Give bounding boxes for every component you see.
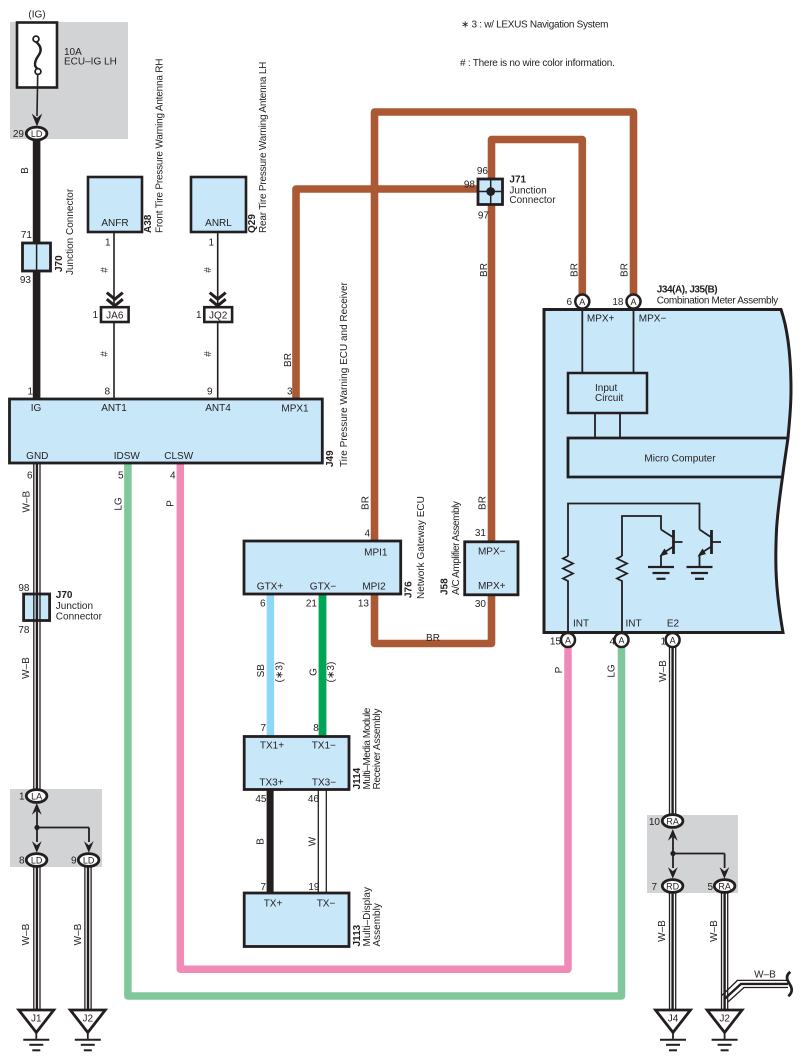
wire label G rotated [309, 668, 320, 676]
svg-text:1: 1 [660, 637, 666, 648]
svg-text:P: P [554, 666, 565, 673]
svg-text:W–B: W–B [709, 920, 720, 942]
wire W-B from Combination Meter E2 pin 1 to RA connector [670, 647, 676, 816]
svg-text:Combination Meter Assembly: Combination Meter Assembly [657, 296, 778, 307]
connector JQ2 pin 1 [204, 307, 232, 322]
svg-text:J71: J71 [509, 174, 526, 185]
svg-text:W–B: W–B [21, 923, 32, 945]
svg-text:TX1+: TX1+ [260, 741, 284, 752]
pin labels 7 19 above J113 [260, 882, 319, 893]
shield chevrons above JA6 [107, 293, 123, 306]
pin label 98 J70 lower [18, 583, 30, 594]
svg-text:GTX+: GTX+ [257, 582, 284, 593]
svg-text:8: 8 [19, 856, 25, 867]
svg-text:INT: INT [573, 619, 589, 630]
svg-text:LG: LG [114, 497, 125, 511]
pin label 97 J71 [478, 211, 490, 222]
wire MPX+ inside meter [581, 311, 583, 373]
Combination Meter Assembly box J34(A) J35(B) with wavy right edge [544, 310, 791, 633]
shield chevrons above JQ2 [210, 293, 226, 306]
svg-text:Junction Connector: Junction Connector [65, 188, 76, 275]
wire SB from J76 GTX+ pin 6 to J114 TX1+ pin 7 [267, 594, 275, 737]
pin label 98 J71 [464, 180, 476, 191]
note wire color [460, 58, 615, 69]
labels MPX+ MPX- inside meter [587, 314, 667, 325]
svg-text:TX+: TX+ [264, 899, 283, 910]
label J34(A) J35(B) Combination Meter Assembly [657, 285, 778, 307]
wire label # ANT4 upper [203, 267, 214, 273]
pin circle A 15 meter bottom [561, 633, 575, 647]
connector JA6 pin 1 [101, 307, 129, 322]
wire label (*3) SB rotated [275, 662, 286, 683]
arrow up to RA [668, 829, 678, 854]
box J113 Multi-Display Assembly [244, 893, 349, 947]
svg-text:MPI1: MPI1 [364, 548, 388, 559]
wire from fuse to LD connector [32, 75, 43, 127]
svg-text:MPX+: MPX+ [587, 314, 615, 325]
svg-text:96: 96 [477, 166, 489, 177]
pin circle A 1 meter bottom [666, 633, 680, 647]
note LEXUS navigation [461, 20, 608, 31]
wire label LG pin4 rotated [607, 664, 618, 678]
svg-text:98: 98 [464, 180, 476, 191]
svg-text:J2: J2 [83, 1014, 94, 1025]
svg-text:98: 98 [18, 583, 30, 594]
wire labels W-B bottom left rotated [21, 923, 84, 945]
svg-text:18: 18 [612, 297, 624, 308]
ground for Q2 [687, 567, 713, 579]
ground triangle J2 right [707, 1010, 742, 1050]
svg-text:# : There is no wire color inf: # : There is no wire color information. [460, 58, 615, 69]
svg-text:8: 8 [313, 723, 319, 734]
connector RA pin 5 [714, 880, 735, 893]
svg-text:(∗3): (∗3) [275, 662, 286, 683]
svg-text:ANT4: ANT4 [205, 403, 231, 414]
svg-text:W–B: W–B [22, 491, 33, 513]
junction dot and branch right [670, 851, 724, 868]
wire B thick from LD connector to J49 IG pin 1 [33, 139, 41, 399]
svg-text:INT: INT [625, 619, 641, 630]
pin circle A 18 on meter top [627, 295, 641, 309]
svg-text:3: 3 [287, 387, 293, 398]
junction dot and branch [34, 825, 89, 842]
svg-text:6: 6 [27, 471, 33, 482]
svg-text:21: 21 [306, 599, 318, 610]
svg-text:Tire Pressure Warning ECU and: Tire Pressure Warning ECU and Receiver [339, 281, 350, 467]
wire label W-B below J70 rotated [21, 657, 32, 679]
svg-text:J1: J1 [31, 1014, 42, 1025]
svg-text:29: 29 [13, 129, 25, 140]
label Front Tire Pressure Warning Antenna RH rotated [155, 59, 166, 233]
arrow down to RD 7 [668, 867, 678, 879]
svg-text:78: 78 [18, 625, 30, 636]
wire labels W-B bottom right rotated [657, 920, 720, 942]
svg-text:LD: LD [31, 129, 43, 139]
wire label W TX3 rotated [308, 836, 319, 846]
svg-text:19: 19 [308, 882, 320, 893]
svg-text:J70: J70 [56, 590, 73, 601]
pin label 78 J70 lower [18, 625, 30, 636]
svg-text:ECU–IG LH: ECU–IG LH [64, 57, 117, 68]
svg-text:RA: RA [718, 881, 731, 891]
label (IG) [28, 10, 45, 21]
svg-text:J76: J76 [404, 581, 415, 598]
svg-text:93: 93 [20, 275, 32, 286]
svg-text:BR: BR [620, 263, 631, 277]
svg-text:GTX−: GTX− [310, 582, 337, 593]
pin labels 7 8 above J114 [260, 723, 319, 734]
label Tire Pressure Warning ECU and Receiver rotated [339, 281, 350, 467]
svg-text:A/C Amplifier Assembly: A/C Amplifier Assembly [451, 501, 462, 595]
pin label 30 J58 [475, 599, 487, 610]
wire label BR pin6 rotated [570, 263, 581, 277]
junction connector J71 [478, 179, 503, 205]
pin label 10 RA [649, 817, 661, 828]
svg-text:BR: BR [426, 633, 440, 644]
svg-text:#: # [203, 351, 214, 357]
svg-text:15: 15 [550, 637, 562, 648]
wire label W-B branch horizontal [754, 970, 776, 981]
svg-text:46: 46 [308, 794, 320, 805]
pin label 29 [13, 129, 25, 140]
internal wire bus lower [622, 516, 661, 556]
svg-text:J58: J58 [440, 578, 451, 595]
svg-text:BR: BR [479, 263, 490, 277]
svg-text:W–B: W–B [658, 660, 669, 682]
svg-text:TX−: TX− [317, 899, 336, 910]
wires Input Circuit to Micro Computer [595, 413, 620, 438]
wire LG from J49 IDSW pin 5 to Combination Meter INT pin 4 [128, 463, 622, 996]
svg-text:J2: J2 [719, 1014, 730, 1025]
gray background right ground-connector area [647, 815, 738, 893]
wire label B rotated [20, 167, 31, 174]
svg-text:Rear Tire Pressure Warning Ant: Rear Tire Pressure Warning Antenna LH [258, 62, 269, 233]
pin labels J49 bottom 6 5 4 [27, 471, 176, 482]
svg-text:1: 1 [208, 238, 214, 249]
pin label 1 ANFR [105, 238, 111, 249]
wire label P pin15 rotated [554, 666, 565, 673]
svg-text:Circuit: Circuit [595, 393, 624, 404]
label J58 A/C Amplifier Assembly rotated [440, 501, 463, 595]
label J70 Junction Connector lower [56, 590, 103, 623]
gray background fuse area [10, 22, 128, 139]
svg-text:4: 4 [609, 637, 615, 648]
label J70 Junction Connector upper rotated [54, 188, 76, 275]
pin label 96 J71 [477, 166, 489, 177]
resistor R2 inside meter [617, 556, 627, 633]
svg-text:(∗3): (∗3) [326, 662, 337, 683]
pin label 71 [21, 230, 33, 241]
svg-text:Connector: Connector [56, 611, 103, 622]
svg-text:TX3−: TX3− [312, 778, 336, 789]
svg-text:MPX+: MPX+ [478, 581, 506, 592]
svg-text:8: 8 [104, 387, 110, 398]
wire W-B from LD connector 8 to J1 ground [34, 866, 40, 1010]
svg-text:9: 9 [71, 856, 77, 867]
label J49 rotated [325, 450, 336, 467]
connector LD pin 9 [78, 854, 99, 867]
svg-text:JA6: JA6 [106, 310, 124, 321]
svg-text:IG: IG [31, 403, 42, 414]
svg-text:7: 7 [260, 723, 266, 734]
svg-text:BR: BR [478, 496, 489, 510]
wire label (*3) G rotated [326, 662, 337, 683]
svg-text:(IG): (IG) [28, 10, 45, 21]
wire W-B from J49 GND pin 6 down to LA connector (double line) [34, 463, 40, 791]
svg-text:P: P [166, 500, 177, 507]
svg-text:A: A [670, 635, 676, 645]
wire ANT1 from JA6 to J49 pin 8 [113, 322, 115, 399]
svg-text:LD: LD [83, 855, 95, 865]
svg-text:J70: J70 [54, 255, 65, 272]
wire label # ANT4 lower [203, 351, 214, 357]
svg-text:TX1−: TX1− [312, 741, 336, 752]
svg-text:J34(A), J35(B): J34(A), J35(B) [657, 285, 718, 296]
arrow down to LD 9 [84, 841, 94, 853]
svg-text:1: 1 [19, 792, 25, 803]
svg-text:10: 10 [649, 817, 661, 828]
J70 junction connector box upper [23, 243, 51, 271]
svg-text:A: A [630, 297, 636, 307]
pin label 4 MPI1 [364, 529, 370, 540]
svg-text:LA: LA [31, 791, 42, 801]
svg-text:71: 71 [21, 230, 33, 241]
antenna box ANRL Q29 [191, 177, 246, 232]
arrow down to LD 8 [32, 841, 42, 853]
svg-text:GND: GND [26, 451, 48, 462]
connector RA pin 10 right gray box [662, 815, 683, 828]
wire BR from J49 MPX1 pin 3 to J71 pin 98 [296, 189, 477, 400]
wire label BR J58 rotated [478, 496, 489, 510]
connector LD pin 29 (oval) [26, 127, 47, 140]
wire MPX- inside meter [633, 311, 635, 373]
svg-text:B: B [20, 167, 31, 174]
pin labels 15 4 1 meter bottom [550, 637, 667, 648]
svg-text:9: 9 [207, 387, 213, 398]
svg-text:W–B: W–B [657, 920, 668, 942]
svg-text:5: 5 [707, 882, 713, 893]
wire label LG rotated [114, 497, 125, 511]
label J76 Network Gateway ECU rotated [404, 496, 428, 599]
svg-text:A: A [579, 297, 585, 307]
pin label 93 [20, 275, 32, 286]
wire label SB rotated [256, 664, 267, 678]
svg-text:ANFR: ANFR [101, 218, 128, 229]
connector LD pin 8 [26, 854, 47, 867]
internal wire bus upper [568, 504, 700, 557]
svg-text:TX3+: TX3+ [259, 778, 283, 789]
label J113 Multi-Display Assembly rotated [352, 887, 383, 946]
wire W-B branch to other page with curl [722, 972, 792, 1002]
wire label P rotated [166, 500, 177, 507]
svg-text:G: G [309, 668, 320, 676]
INT INT E2 labels inside meter [573, 619, 680, 630]
pin label 31 J58 [475, 528, 487, 539]
svg-text:#: # [100, 267, 111, 273]
wire BR from J71 pin 97 down to J58 MPX- pin 31 [488, 203, 496, 545]
wire BR from J76 MPI1 pin 4 up and over to Combination Meter pin 18 MPX- [375, 112, 634, 542]
svg-text:W–B: W–B [21, 657, 32, 679]
svg-text:E2: E2 [667, 619, 680, 630]
svg-text:30: 30 [475, 599, 487, 610]
wire ANT4 from ANRL pin 1 to JQ2 [217, 233, 219, 308]
ground triangle J2 left [70, 1010, 105, 1050]
svg-text:1: 1 [92, 310, 98, 321]
svg-text:IDSW: IDSW [114, 451, 141, 462]
wire label BR MPI1 rotated [361, 496, 372, 510]
wire label B TX3 rotated [256, 838, 267, 845]
transistor Q2 inside meter [698, 530, 722, 568]
wire BR from J71 pin 96 to Combination Meter pin 6 MPX+ [492, 140, 583, 296]
wire BR from J58 MPX+ pin 30 to J76 MPI2 pin 13 [375, 592, 492, 644]
svg-text:A: A [565, 635, 571, 645]
ECU box J76 Network Gateway ECU [244, 541, 401, 594]
svg-text:RA: RA [666, 816, 679, 826]
wire label BR bottom horizontal [426, 633, 440, 644]
svg-text:7: 7 [260, 882, 266, 893]
label Rear Tire Pressure Warning Antenna LH rotated [258, 62, 269, 233]
svg-text:W: W [308, 836, 319, 846]
svg-text:1: 1 [196, 310, 202, 321]
pin labels 6 21 13 below J76 [260, 599, 369, 610]
svg-text:ANT1: ANT1 [101, 403, 127, 414]
svg-text:A38: A38 [143, 214, 154, 233]
ground triangle J4 [656, 1010, 691, 1050]
pin circle A 6 on meter top [575, 295, 589, 309]
label J114 Multi-Media Module Receiver Assembly rotated [352, 707, 383, 789]
wire W-B from LD connector 9 to J2 ground [85, 866, 91, 1010]
wire label # ANT1 upper [100, 267, 111, 273]
svg-text:13: 13 [358, 599, 370, 610]
svg-text:J49: J49 [325, 450, 336, 467]
Input Circuit box [568, 373, 647, 413]
resistor R1 inside meter [563, 556, 573, 633]
pin label 1 ANRL [208, 238, 214, 249]
label J71 Junction Connector [509, 174, 556, 206]
pin label 1 LA [19, 792, 25, 803]
svg-text:A: A [618, 635, 624, 645]
wire B from J114 TX3+ pin 45 to J113 TX+ pin 7 [267, 789, 274, 894]
pin labels 7 5 RD RA [651, 882, 713, 893]
svg-text:W–B: W–B [754, 970, 776, 981]
svg-text:1: 1 [105, 238, 111, 249]
pin labels 6 18 meter top [566, 297, 623, 308]
ECU box J58 A/C Amplifier Assembly [465, 542, 518, 595]
wire ANT4 from JQ2 to J49 pin 9 [217, 322, 219, 399]
label A38 rotated [143, 214, 154, 233]
svg-text:45: 45 [255, 794, 267, 805]
svg-text:Q29: Q29 [247, 214, 258, 233]
svg-text:BR: BR [361, 496, 372, 510]
svg-text:Front Tire Pressure Warning An: Front Tire Pressure Warning Antenna RH [155, 59, 166, 233]
wire G from J76 GTX- pin 21 to J114 TX1- pin 8 [319, 594, 327, 737]
J70 junction connector box lower [24, 594, 50, 621]
svg-text:4: 4 [170, 471, 176, 482]
svg-text:B: B [256, 838, 267, 845]
svg-text:Network Gateway ECU: Network Gateway ECU [416, 496, 427, 599]
pin label 1 JQ2 [196, 310, 202, 321]
ground for Q1 [648, 567, 674, 579]
wire label BR pin18 rotated [620, 263, 631, 277]
svg-text:6: 6 [566, 297, 572, 308]
svg-text:6: 6 [260, 599, 266, 610]
ground triangle J1 [19, 1010, 54, 1050]
fuse 10A ECU-IG LH [17, 23, 57, 88]
wire label # ANT1 lower [100, 351, 111, 357]
svg-text:31: 31 [475, 528, 487, 539]
label 10A ECU-IG LH [64, 47, 117, 68]
svg-text:CLSW: CLSW [164, 451, 193, 462]
antenna box ANFR A38 [88, 177, 142, 232]
svg-text:LD: LD [31, 855, 43, 865]
svg-text:MPX−: MPX− [639, 314, 667, 325]
svg-text:RD: RD [666, 881, 679, 891]
pin labels 8 9 LD [19, 856, 77, 867]
svg-text:∗ 3 : w/ LEXUS Navigation Syst: ∗ 3 : w/ LEXUS Navigation System [461, 20, 608, 31]
svg-text:4: 4 [364, 529, 370, 540]
wire W-B from RA connector 5 to J2 ground right [722, 892, 728, 1010]
wire label BR x491 rotated [479, 263, 490, 277]
svg-text:W–B: W–B [73, 923, 84, 945]
wire W from J114 TX3- pin 46 to J113 TX- pin 19 (double line) [318, 789, 326, 894]
svg-text:5: 5 [118, 471, 124, 482]
svg-text:7: 7 [651, 882, 657, 893]
transistor Q1 inside meter [660, 530, 683, 568]
svg-text:97: 97 [478, 211, 490, 222]
gray background left ground-connector area [10, 789, 102, 867]
connector RD pin 7 [662, 880, 683, 893]
svg-text:Connector: Connector [509, 195, 556, 206]
svg-text:1: 1 [27, 387, 33, 398]
wire label BR MPX1 rotated [283, 353, 294, 367]
wire ANT1 from ANFR pin 1 to JA6 [113, 233, 115, 308]
svg-text:MPX−: MPX− [478, 547, 506, 558]
svg-text:SB: SB [256, 664, 267, 678]
svg-text:JQ2: JQ2 [209, 310, 228, 321]
svg-text:Receiver Assembly: Receiver Assembly [372, 708, 383, 789]
arrow down to RA 5 [720, 867, 730, 879]
wire P from J49 CLSW pin 4 to Combination Meter INT pin 15 [180, 463, 568, 969]
svg-text:Assembly: Assembly [372, 903, 383, 946]
connector LA pin 1 with arrows left gray box [26, 790, 47, 803]
svg-text:ANRL: ANRL [205, 218, 232, 229]
wire W-B from RD connector 7 to J4 ground [670, 892, 676, 1010]
box J114 Multi-Media Module Receiver Assembly [244, 737, 349, 790]
svg-text:Micro Computer: Micro Computer [644, 454, 716, 465]
svg-text:#: # [203, 267, 214, 273]
ECU box J49 Tire Pressure Warning ECU and Receiver [10, 399, 323, 463]
pin labels J49 top 1 8 9 3 [27, 387, 293, 398]
wire label W-B GND rotated [22, 491, 33, 513]
pin labels 45 46 below J114 [255, 794, 319, 805]
svg-text:BR: BR [570, 263, 581, 277]
label Q29 rotated [247, 214, 258, 233]
svg-text:MPX1: MPX1 [281, 404, 309, 415]
pin circle A 4 meter bottom [615, 633, 629, 647]
svg-text:J4: J4 [668, 1014, 679, 1025]
Micro Computer box [568, 438, 788, 477]
svg-text:#: # [100, 351, 111, 357]
svg-text:LG: LG [607, 664, 618, 678]
svg-text:BR: BR [283, 353, 294, 367]
svg-text:MPI2: MPI2 [362, 582, 386, 593]
arrow up to LA [32, 803, 42, 828]
wire label W-B E2 rotated [658, 660, 669, 682]
pin label 1 JA6 [92, 310, 98, 321]
